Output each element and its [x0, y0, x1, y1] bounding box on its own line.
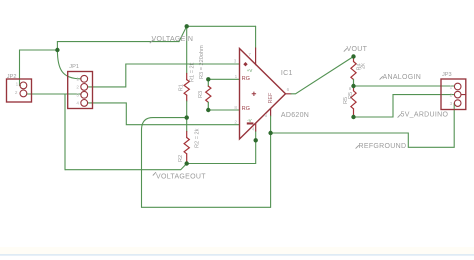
junction node R3 bottom: [206, 108, 210, 112]
svg-text:RG: RG: [242, 106, 250, 112]
svg-text:JP3: JP3: [442, 72, 452, 78]
wire JP1 pin 4 to op-amp -IN pin 2: [88, 103, 240, 125]
wire feedback riser with curve to R1/R2 node: [142, 118, 187, 208]
svg-text:R2: R2: [178, 155, 184, 162]
net label VOLTAGEOUT tick: [153, 172, 156, 175]
svg-text:AD620N: AD620N: [281, 112, 309, 119]
pin 4 stub op-amp: [255, 123, 257, 131]
wire arc to JP1 pin 1: [57, 50, 81, 79]
resistor R4: [351, 57, 356, 87]
junction node REF/REFGROUND: [268, 131, 272, 135]
wire VOLTAGEIN diagonal riser: [179, 26, 187, 41]
svg-text:JP2: JP2: [7, 74, 17, 80]
svg-text:5V_ARDUINO: 5V_ARDUINO: [401, 112, 449, 119]
wire corner down to junction: [56, 42, 58, 50]
svg-text:7: 7: [248, 52, 251, 57]
svg-text:3: 3: [76, 93, 79, 98]
wire REF pin down to bottom rail: [270, 116, 272, 207]
svg-text:IC1: IC1: [281, 70, 293, 77]
wire VOLTAGEIN top run to op-amp V+: [187, 25, 256, 27]
wire REFGROUND run to JP3 pin 3: [271, 103, 455, 147]
svg-text:1: 1: [450, 84, 453, 89]
svg-text:2: 2: [76, 85, 79, 90]
connector JP2: [7, 79, 32, 102]
svg-text:4: 4: [76, 101, 79, 106]
junction node VOLTAGEIN top: [185, 24, 189, 28]
pin 6 output stub: [286, 93, 292, 95]
svg-text:REFGROUND: REFGROUND: [359, 143, 407, 150]
svg-text:2k: 2k: [361, 63, 367, 69]
junction node VOUT: [351, 54, 355, 58]
junction node R3 top: [206, 77, 210, 81]
svg-text:+V: +V: [247, 68, 253, 73]
net label 5V_ARDUINO tick: [398, 114, 401, 117]
svg-text:2: 2: [15, 90, 18, 95]
op-amp -IN minus bar: [247, 122, 254, 124]
pin 7 stub op-amp: [255, 48, 257, 65]
wire R1 top feed: [186, 26, 188, 73]
net label REFGROUND tick: [356, 145, 359, 148]
net label VOUT tick: [344, 48, 347, 51]
wire op-amp pin 1 to R3 top: [208, 78, 239, 80]
svg-text:1: 1: [76, 77, 79, 82]
svg-text:R3 = 220ohm: R3 = 220ohm: [199, 45, 205, 79]
svg-text:5: 5: [265, 113, 268, 118]
wire VOLTAGEIN horizontal: [57, 41, 179, 43]
wire 5V_ARDUINO to JP3 pin 2: [354, 95, 455, 117]
svg-text:R1 = 2k: R1 = 2k: [189, 62, 195, 82]
junction node VOLTAGEIN left: [55, 48, 59, 52]
op-amp center plus marker: [252, 92, 256, 96]
resistor R3: [206, 79, 211, 110]
svg-text:ANALOGIN: ANALOGIN: [383, 74, 422, 81]
wire VOLTAGEOUT rail: [65, 164, 187, 170]
svg-text:3: 3: [450, 101, 453, 106]
wire JP1 pin 2 to op-amp +IN pin 3: [88, 64, 240, 87]
connector JP3: [441, 79, 466, 110]
resistor R5: [351, 86, 356, 117]
svg-text:R3: R3: [198, 91, 204, 98]
svg-text:VOLTAGEOUT: VOLTAGEOUT: [156, 174, 206, 181]
wire left rail drop to VOLTAGEOUT: [64, 94, 66, 170]
wire output diagonal to VOUT: [291, 57, 354, 94]
junction node R4/R5 midpoint: [351, 84, 355, 88]
svg-text:JP1: JP1: [69, 64, 79, 70]
svg-text:4: 4: [252, 127, 255, 132]
junction node R2 bottom: [185, 161, 189, 165]
svg-text:R5 =: R5 =: [348, 87, 354, 99]
svg-text:8: 8: [234, 105, 237, 110]
wire op-amp pin 8 to R3 bottom: [208, 109, 239, 111]
svg-text:6: 6: [287, 87, 290, 92]
svg-text:3: 3: [234, 59, 237, 64]
wire R2 bottom to op-amp pin 4: [187, 131, 256, 164]
wire R1 bottom to junction and R2 top: [186, 101, 188, 132]
junction node R5 bottom: [351, 115, 355, 119]
svg-text:2: 2: [234, 119, 237, 124]
net label ANALOGIN tick: [380, 76, 383, 79]
wire ANALOGIN to JP3 pin 1: [354, 85, 455, 87]
svg-text:1: 1: [16, 81, 19, 86]
svg-text:R1: R1: [179, 84, 185, 91]
page footer blue line: [0, 254, 474, 255]
svg-text:-V: -V: [247, 118, 251, 123]
resistor R1: [184, 74, 189, 102]
junction node R1/R2 midpoint: [185, 115, 189, 119]
wire to JP2 pin 1: [20, 50, 58, 85]
svg-text:REF: REF: [268, 92, 274, 103]
svg-text:VOUT: VOUT: [347, 46, 368, 53]
pin 5 REF stub op-amp: [270, 109, 272, 116]
svg-text:1: 1: [235, 74, 238, 79]
pin stub right of JP3 pin 2: [461, 94, 465, 96]
resistor R2: [184, 132, 189, 164]
svg-text:R2 = 2k: R2 = 2k: [194, 128, 200, 148]
svg-text:RG: RG: [242, 76, 250, 82]
net label VOLTAGEIN tick: [150, 40, 153, 43]
svg-text:2: 2: [450, 93, 453, 98]
wire JP2 pin 2 to JP1 pin 3: [27, 93, 81, 95]
wire bottom rail: [142, 206, 271, 208]
connector JP1: [68, 72, 93, 109]
op-amp +IN diamond marker: [243, 62, 247, 66]
op-amp U1 triangle: [240, 49, 286, 140]
svg-text:VOLTAGEIN: VOLTAGEIN: [152, 36, 194, 43]
wire op-amp pin7 drop: [255, 26, 257, 48]
junction node pin 4 corner: [254, 138, 258, 142]
